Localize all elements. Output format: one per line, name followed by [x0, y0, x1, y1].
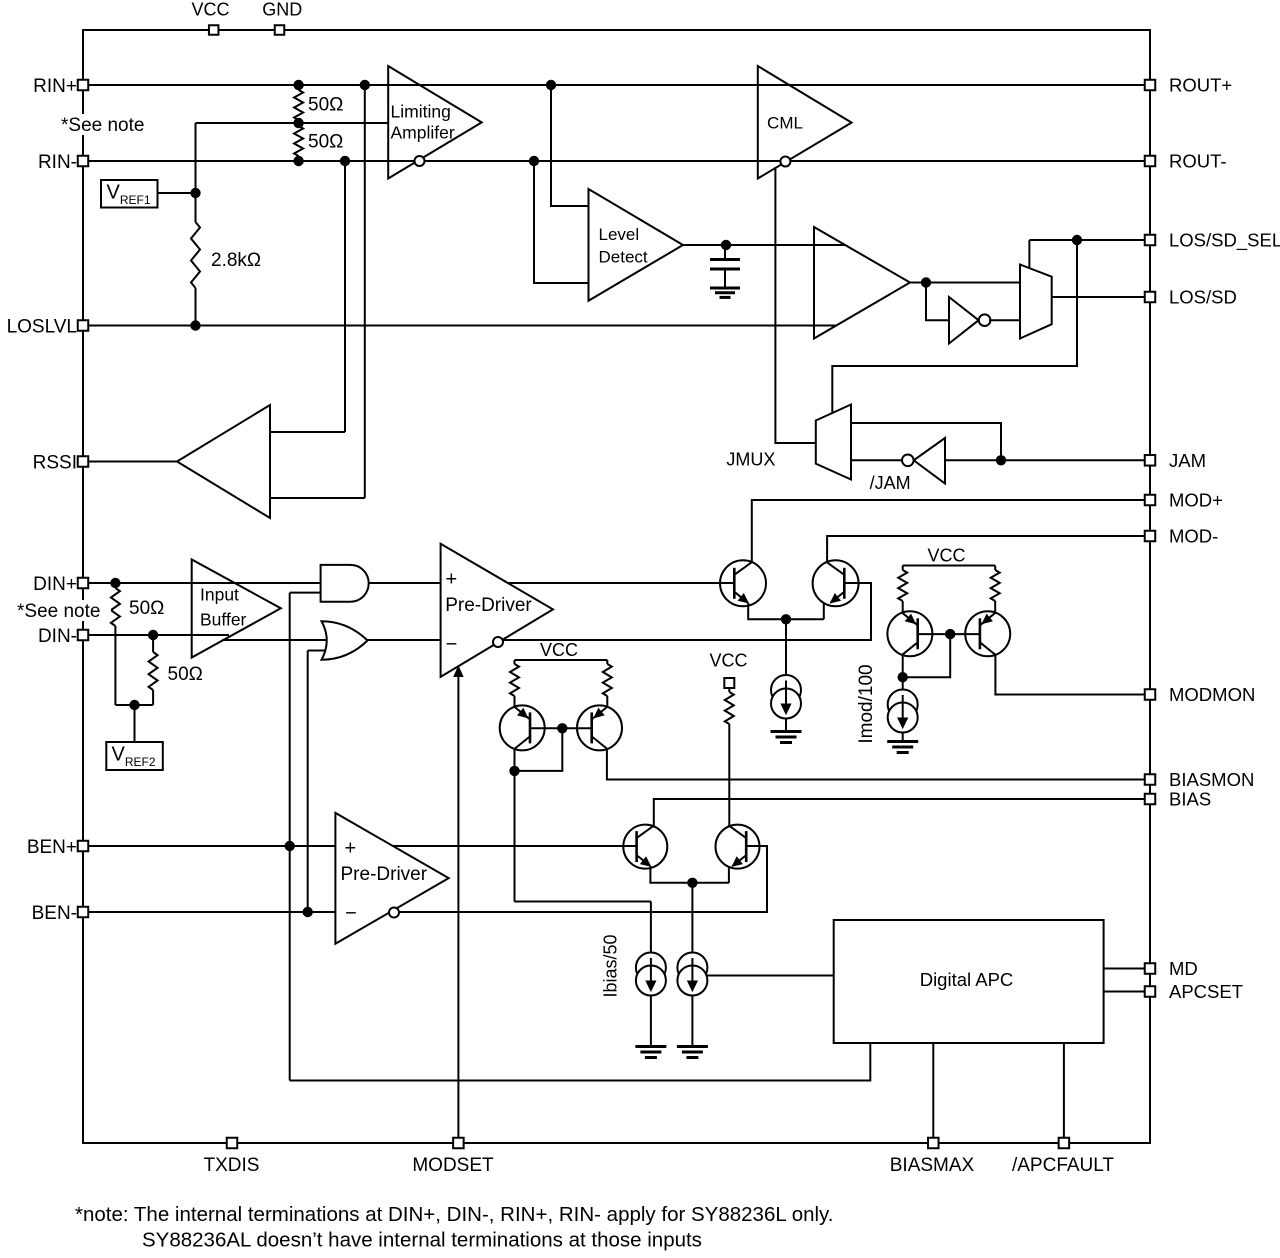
wire RIN- branch to level detect: [534, 161, 589, 283]
op-amp CML: [758, 66, 852, 179]
inverting output bubble (Limiting Amplifier): [415, 156, 425, 166]
pin APCSET: [1145, 986, 1156, 997]
wire level detect output: [683, 244, 845, 246]
note marker *See note (DIN): [15, 600, 111, 621]
wire mux output to LOS/SD: [1052, 296, 1150, 298]
wire RIN+ branch down to RSSI: [364, 85, 366, 498]
svg-text:Level: Level: [599, 225, 640, 244]
svg-text:APCSET: APCSET: [1169, 981, 1243, 1002]
transistor Q5: [623, 825, 667, 869]
svg-text:TXDIS: TXDIS: [204, 1155, 260, 1176]
wire /JAM to JMUX: [851, 459, 902, 461]
junction CM node: [293, 118, 303, 128]
wire DIN termination join: [115, 704, 153, 706]
svg-text:CML: CML: [767, 114, 803, 133]
svg-text:LOSLVL: LOSLVL: [7, 317, 77, 338]
wire Q7-Q8 base tie: [918, 633, 980, 635]
svg-text:2.8kΩ: 2.8kΩ: [211, 250, 261, 271]
wire MODSET control: [457, 676, 459, 1143]
arrowhead MODSET into pre-driver: [454, 667, 463, 677]
junction Q7 collector/base: [898, 672, 908, 682]
svg-text:BEN-: BEN-: [32, 903, 77, 924]
pin /APCFAULT: [1059, 1138, 1070, 1149]
svg-text:Limiting: Limiting: [391, 102, 451, 122]
pin BEN-: [78, 907, 89, 918]
junction DIN+ / 50R: [110, 578, 120, 588]
inverting output bubble (Pre-Driver BEN): [389, 908, 399, 918]
transistor Q3 (PNP): [500, 705, 545, 750]
junction level detect upper tap: [546, 80, 556, 90]
svg-text:/JAM: /JAM: [870, 473, 911, 493]
svg-text:*See note: *See note: [17, 601, 100, 622]
pin BIASMAX: [928, 1138, 939, 1149]
junction Vref2 node: [129, 700, 139, 710]
wire APC to APCSET: [1104, 991, 1150, 993]
svg-text:−: −: [345, 903, 357, 925]
svg-text:VREF2: VREF2: [112, 744, 156, 770]
wire Q3 collector down: [514, 749, 516, 902]
wire to Vref2: [134, 705, 136, 742]
svg-text:BIASMAX: BIASMAX: [890, 1155, 975, 1176]
svg-text:JAM: JAM: [1169, 450, 1206, 471]
wire LOS/SD_SEL to JMUX select: [832, 240, 1077, 413]
resistor 50R (DIN-): [149, 652, 158, 690]
svg-text:*note: The internal terminatio: *note: The internal terminations at DIN+…: [75, 1203, 833, 1226]
pin TXDIS: [227, 1138, 238, 1149]
wire Q4 collector to BIASMON: [607, 749, 1150, 780]
svg-text:JMUX: JMUX: [726, 450, 775, 470]
pin ROUT-: [1145, 156, 1156, 167]
wire Q5 collector to BIAS: [654, 799, 1150, 826]
svg-text:Ibias/50: Ibias/50: [601, 934, 621, 997]
resistor R7 (Q7 emitter): [898, 570, 907, 601]
junction BIAS tail: [687, 878, 697, 888]
svg-text:DIN+: DIN+: [33, 574, 77, 595]
wire Q8 collector to MODMON: [995, 655, 1150, 695]
junction LOS output: [921, 277, 931, 287]
wire Q7 collector down: [902, 655, 904, 690]
svg-text:MODMON: MODMON: [1169, 684, 1255, 705]
svg-text:MOD-: MOD-: [1169, 526, 1218, 547]
wire BEN pre-driver + output to Q5 base: [393, 845, 637, 847]
transistor Q2: [813, 560, 859, 606]
inverter U3 (LOS/SD): [949, 297, 979, 344]
wire APC to AND gate (TXDIS path): [290, 1043, 871, 1081]
svg-text:RIN-: RIN-: [38, 152, 77, 173]
ground (Ibias tail): [677, 1045, 708, 1048]
wire Imod/100 source to ground: [902, 732, 904, 742]
inverter U3 bubble: [979, 314, 991, 326]
svg-text:MODSET: MODSET: [412, 1155, 494, 1176]
transistor Q7 (PNP): [887, 611, 932, 656]
junction mirror base: [557, 723, 567, 733]
op-amp Pre-Driver (BEN): [335, 813, 448, 944]
wire CM vertical (Vref1 / 2.8k): [195, 123, 197, 222]
svg-text:MD: MD: [1169, 958, 1198, 979]
svg-text:Imod/100: Imod/100: [856, 664, 877, 743]
wire LOS/SD_SEL: [1029, 239, 1150, 241]
junction DIN- / 50R: [148, 630, 158, 640]
mux LOS/SD select: [1020, 265, 1052, 339]
wire LOS output: [910, 282, 1020, 284]
junction MOD tail: [781, 614, 791, 624]
wire Q1 emitter: [748, 603, 824, 619]
svg-text:50Ω: 50Ω: [308, 95, 343, 116]
pin BIASMON: [1145, 774, 1156, 785]
svg-text:RIN+: RIN+: [33, 76, 77, 97]
svg-text:+: +: [445, 569, 457, 591]
wire DIN- input: [83, 634, 229, 636]
svg-text:VREF1: VREF1: [107, 182, 151, 208]
wire RIN+ to ROUT+ (net RINP): [83, 84, 1150, 86]
wire mirror ref to Ibias/50 source: [515, 901, 651, 903]
resistor 50R (DIN+): [111, 588, 120, 626]
wire LOS output to inverter: [926, 283, 949, 321]
transistor Q4 (PNP): [577, 705, 622, 750]
junction BEN+ / control: [285, 841, 295, 851]
pin LOS/SD_SEL: [1145, 235, 1156, 246]
wire AND output to pre-driver +: [369, 582, 441, 584]
op-amp Limiting Amplifier: [388, 66, 482, 179]
pin DIN-: [78, 630, 89, 641]
svg-text:BIASMON: BIASMON: [1169, 769, 1254, 790]
wire current source to ground: [785, 718, 787, 732]
inverter /JAM bubble: [902, 455, 914, 467]
resistor R4 (Q4 emitter): [603, 664, 612, 696]
wire base tie to Q7 collector: [903, 634, 951, 677]
mux JMUX: [816, 405, 851, 480]
wire DIN+ input: [83, 582, 321, 584]
svg-text:RSSI: RSSI: [33, 453, 77, 474]
junction LOS/SD_SEL branch: [1072, 235, 1082, 245]
wire APC to BIASMAX: [932, 1043, 934, 1143]
pin JAM: [1145, 455, 1156, 466]
resistor 2.8k: [191, 222, 200, 288]
wire VCC rail (bias mirror): [515, 659, 608, 661]
wire JAM to JMUX input: [851, 423, 1001, 460]
wire VCC rail (mod mirror): [903, 565, 996, 567]
comparator LOS: [814, 227, 910, 339]
wire BEN- input: [83, 911, 335, 913]
wire base tie to Q3 collector: [515, 728, 563, 771]
svg-text:DIN-: DIN-: [38, 626, 77, 647]
junction BEN- / control: [303, 907, 313, 917]
wire Ibias tail to ground: [691, 995, 693, 1047]
wire APC to /APCFAULT: [1063, 1043, 1065, 1143]
pin RIN-: [78, 156, 89, 167]
ground (Imod/100): [887, 740, 918, 743]
svg-text:VCC: VCC: [191, 0, 229, 20]
op-amp Input Buffer: [192, 560, 281, 658]
junction RIN- branch: [340, 156, 350, 166]
svg-text:ROUT-: ROUT-: [1169, 151, 1227, 172]
junction RIN- / 50R: [293, 156, 303, 166]
junction mod mirror base: [945, 629, 955, 639]
pin MOD-: [1145, 531, 1156, 542]
current source Imod/100: [888, 690, 918, 720]
junction JAM branch: [996, 455, 1006, 465]
svg-text:MOD+: MOD+: [1169, 490, 1223, 511]
pin MODSET: [453, 1138, 464, 1149]
svg-text:Digital APC: Digital APC: [920, 969, 1014, 990]
wire tail to current source: [785, 619, 787, 676]
pin MODMON: [1145, 689, 1156, 700]
Vref2 box: [106, 742, 163, 770]
wire BEN+ input: [83, 845, 335, 847]
ground (Ibias/50): [635, 1045, 666, 1048]
wire Q2 collector to MOD-: [827, 536, 1150, 562]
pin BEN+: [78, 841, 89, 852]
current source Ibias tail: [677, 953, 707, 983]
inverter /JAM: [914, 438, 945, 484]
svg-text:*See note: *See note: [61, 115, 144, 136]
wire APC to MD: [1104, 968, 1150, 970]
svg-text:50Ω: 50Ω: [308, 132, 343, 153]
svg-text:LOS/SD_SEL: LOS/SD_SEL: [1169, 230, 1280, 252]
junction level detect / capacitor: [721, 240, 731, 250]
inverting output bubble (Pre-Driver MOD): [493, 637, 503, 647]
resistor 50R upper (RIN+ to CM node): [294, 90, 303, 120]
wire input buffer inverted output: [222, 639, 332, 641]
pin MD: [1145, 963, 1156, 974]
junction RIN+ / 50R: [293, 80, 303, 90]
wire inverter to mux: [989, 319, 1020, 321]
svg-text:−: −: [446, 634, 458, 656]
wire OR output to pre-driver -: [368, 639, 441, 641]
pin LOS/SD: [1145, 292, 1156, 303]
transistor Q1: [720, 560, 766, 606]
pin BIAS: [1145, 794, 1156, 805]
wire RIN- branch down to RSSI: [344, 161, 346, 432]
pin VCC (top): [209, 25, 219, 35]
resistor R8 (Q8 emitter): [991, 570, 1000, 601]
wire Q1 collector to MOD+: [752, 500, 1150, 562]
pin GND (top): [275, 25, 285, 35]
pin LOSLVL: [78, 320, 89, 331]
junction RIN+ branch: [360, 80, 370, 90]
resistor 50R lower (CM node to RIN-): [294, 126, 303, 156]
svg-text:ROUT+: ROUT+: [1169, 75, 1232, 96]
junction level detect lower tap: [529, 156, 539, 166]
svg-text:Buffer: Buffer: [200, 610, 247, 630]
ground (Imod tail): [771, 730, 802, 733]
svg-text:Pre-Driver: Pre-Driver: [341, 864, 428, 885]
wire RIN- to ROUT- (net RINN): [83, 160, 1150, 162]
block Digital APC: [834, 920, 1104, 1043]
wire APC to tail source: [707, 975, 834, 977]
current source Imod tail: [771, 675, 801, 705]
wire APC control vertical (to AND gate): [289, 593, 291, 1081]
wire mux select: [1028, 240, 1030, 269]
svg-text:BIAS: BIAS: [1169, 789, 1211, 810]
and-gate U4: [321, 565, 369, 602]
junction Vref1 node: [190, 188, 200, 198]
svg-text:Detect: Detect: [599, 248, 648, 267]
wire Q6 emitter: [728, 866, 730, 883]
wire Vref1 to node: [158, 192, 196, 194]
svg-text:Pre-Driver: Pre-Driver: [445, 595, 532, 616]
Vref1 box: [101, 180, 158, 208]
wire CML output to JMUX: [775, 167, 815, 443]
wire Q5 emitter: [650, 866, 729, 883]
svg-text:GND: GND: [262, 0, 302, 20]
or-gate U5: [322, 621, 368, 660]
wire tail to Ibias source: [691, 883, 693, 953]
transistor Q8 (PNP): [965, 611, 1010, 656]
wire JAM: [945, 459, 1150, 461]
pin DIN+: [78, 578, 89, 589]
svg-text:Amplifer: Amplifer: [391, 123, 455, 143]
op-amp RSSI buffer: [177, 405, 270, 518]
op-amp Pre-Driver (MOD): [441, 544, 553, 677]
wire common-mode node to limiting amp: [196, 122, 389, 124]
wire RIN+ branch to level detect: [551, 85, 589, 206]
svg-text:SY88236AL doesn’t have interna: SY88236AL doesn’t have internal terminat…: [142, 1229, 702, 1252]
pin MOD+: [1145, 495, 1156, 506]
resistor R3 (Q3 emitter): [510, 664, 519, 696]
note marker *See note (RIN): [59, 114, 152, 135]
junction Q3 collector/base: [509, 766, 519, 776]
wire Q2 emitter: [823, 603, 825, 619]
inverting output bubble (CML): [780, 157, 790, 167]
op-amp Level Detect: [589, 189, 684, 301]
svg-text:VCC: VCC: [709, 651, 747, 671]
chip boundary: [83, 30, 1150, 1143]
wire Q3-Q4 base tie: [530, 727, 592, 729]
svg-text:VCC: VCC: [927, 546, 965, 566]
pin RSSI: [78, 456, 89, 467]
svg-text:Input: Input: [200, 585, 239, 605]
pin ROUT+: [1145, 80, 1156, 91]
ground (capacitor C1): [710, 287, 740, 290]
current source Ibias/50: [636, 953, 666, 983]
pin RIN+: [78, 80, 89, 91]
wire pre-driver - output to Q2 base: [503, 583, 871, 640]
resistor Q6 pull-up: [728, 688, 730, 692]
svg-text:VCC: VCC: [540, 640, 578, 660]
wire LOSLVL: [83, 325, 836, 327]
svg-text:50Ω: 50Ω: [168, 664, 203, 685]
wire RSSI output: [83, 461, 177, 463]
wire Ibias/50 to ground: [650, 995, 652, 1047]
junction 2.8k / LOSLVL: [190, 320, 200, 330]
capacitor C1: [724, 245, 726, 260]
svg-text:50Ω: 50Ω: [129, 598, 164, 619]
wire pre-driver + output to Q1 base: [508, 582, 735, 584]
svg-text:/APCFAULT: /APCFAULT: [1012, 1155, 1114, 1176]
wire BEN pre-driver - output to Q6 base: [400, 846, 767, 912]
transistor Q6: [716, 825, 760, 869]
svg-text:LOS/SD: LOS/SD: [1169, 287, 1237, 308]
svg-text:+: +: [345, 838, 357, 860]
wire control to OR gate: [307, 651, 309, 913]
svg-text:BEN+: BEN+: [27, 837, 77, 858]
